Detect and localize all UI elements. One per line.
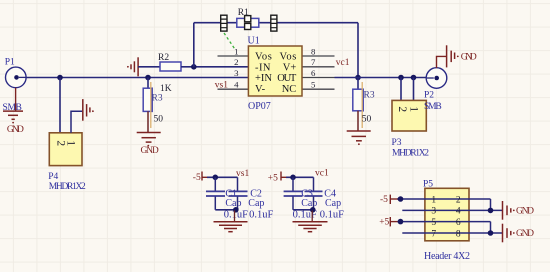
ground under R3 right [347,111,371,145]
svg-text:5: 5 [431,218,436,228]
wire down to P4 pin [59,78,61,133]
wire pin2 to pin4 [490,199,492,210]
ground above P2 [437,45,477,68]
svg-text:P4: P4 [48,172,58,182]
resistor R2 [158,53,181,71]
svg-text:-5: -5 [380,195,388,205]
wire ground to R2 [138,66,160,68]
wire U1 output to P2 [335,77,427,79]
svg-text:P5: P5 [423,180,433,190]
pin 4 [218,88,249,90]
svg-text:GND: GND [516,207,534,217]
power port -5 at caps [193,172,208,184]
connector P2 (SMB) [424,68,447,112]
ground right of P5 bottom [503,224,535,243]
tan artifact line [361,82,363,128]
jumper pad left of R1 [220,15,227,31]
ground (rotated) near P4 [83,99,94,121]
svg-text:4: 4 [234,80,239,90]
body [425,188,469,241]
junction dot C3 top [290,175,296,181]
header P4 MHDR1X2 [48,133,86,192]
pin 5 [302,88,335,90]
wire feedback right vertical [357,23,359,78]
svg-text:8: 8 [311,46,316,56]
row wires [397,198,491,200]
junction dot at R3 branch [145,75,151,81]
svg-text:R2: R2 [158,53,169,63]
svg-text:7: 7 [431,229,436,239]
jumper pad right of R1 [270,15,277,31]
pin 6 [302,77,335,79]
junction dot P3 pin2 [398,75,404,81]
svg-text:50: 50 [362,114,372,124]
op-amp U1 OP07 [218,36,335,112]
junction dot at P1 branch [57,75,63,81]
ground under P1 [3,88,24,136]
wire +5 to caps [286,176,314,178]
wire R2 to U1 pin2 [181,66,248,68]
junction dot at R2 output [191,64,197,70]
svg-text:-IN: -IN [255,62,271,73]
svg-text:+IN: +IN [255,73,272,84]
svg-text:GND: GND [141,146,159,156]
pad bottom of R1 [245,23,251,29]
wire -5 to caps [207,176,238,178]
wire cap bottoms [215,209,237,211]
svg-text:1: 1 [408,106,420,112]
svg-text:6: 6 [456,218,461,228]
svg-text:V-: V- [255,84,266,95]
header P3 MHDR1X2 [392,100,430,158]
svg-text:R3: R3 [364,90,375,100]
svg-text:2: 2 [234,57,238,67]
junction dots [488,208,494,214]
svg-text:OUT: OUT [277,73,297,84]
ground under R3 left [137,111,161,156]
resistor R1 [237,8,259,27]
svg-text:vc1: vc1 [336,58,350,68]
pin 7 [302,66,335,68]
svg-text:5: 5 [311,80,316,90]
svg-text:1: 1 [234,46,238,56]
wire P4 pin2 to ground [71,111,82,133]
wire feedback vertical [193,23,195,67]
svg-text:P2: P2 [424,91,434,101]
svg-text:Header 4X2: Header 4X2 [424,251,470,262]
svg-text:Vos: Vos [255,52,272,63]
svg-text:50: 50 [154,115,164,125]
pin 8 [302,55,335,57]
ground left of R2 [127,57,138,76]
power port -5 at P5 [380,195,403,205]
junction dot P3 pin1 [411,75,417,81]
body [248,46,302,96]
svg-text:-5: -5 [193,173,201,183]
svg-text:6: 6 [311,68,316,78]
svg-text:SMB: SMB [424,102,442,112]
svg-text:4: 4 [456,207,461,217]
capacitor C3 [284,177,318,220]
svg-text:MHDR1X2: MHDR1X2 [49,182,86,192]
svg-text:GND: GND [516,229,534,239]
svg-text:0.1uF: 0.1uF [249,210,273,221]
svg-text:Cap: Cap [248,198,264,209]
svg-text:GND: GND [461,53,477,63]
junction dot caps gnd [233,207,239,213]
junction dot caps gnd right [310,207,316,213]
svg-text:U1: U1 [248,36,260,47]
power port +5 at caps [268,172,287,184]
ground under C1 C2 [214,211,248,232]
wire P3 pin2 drop [400,78,402,101]
tan artifact line [150,82,152,128]
svg-text:OP07: OP07 [248,101,271,112]
resistor R3 left 1K [143,78,172,129]
svg-text:2: 2 [396,106,408,112]
wire feedback top [194,22,358,24]
svg-text:NC: NC [282,84,297,95]
junction dot feedback/output [355,75,361,81]
svg-text:1: 1 [65,140,77,146]
svg-text:GND: GND [7,125,24,135]
connector P1 (SMB) [3,58,27,114]
svg-text:R3: R3 [152,93,163,103]
capacitor C2 [229,177,274,220]
ground right of P5 top [503,201,535,220]
svg-text:7: 7 [311,57,316,67]
pin 1 [218,55,249,57]
wire P3 pin1 drop [413,78,415,101]
wire main net from P1 to U1 pin3 [26,77,248,79]
svg-text:P1: P1 [5,58,15,68]
ground under C3 C4 [293,211,328,232]
svg-text:Cap: Cap [225,198,241,209]
svg-text:Vos: Vos [280,52,297,63]
wire cap bottoms right [293,209,314,211]
svg-text:MHDR1X2: MHDR1X2 [392,149,429,159]
svg-text:+5: +5 [268,174,278,184]
capacitor C1 [206,177,248,220]
pad top of R1 [245,16,251,22]
svg-text:Cap: Cap [325,198,341,209]
header P5 4X2 [397,180,503,263]
green guide dashed line [224,33,236,50]
svg-text:3: 3 [234,68,239,78]
junction dot C1 top [213,175,219,181]
svg-text:+5: +5 [379,218,389,228]
svg-text:3: 3 [431,207,436,217]
svg-text:vs1: vs1 [215,80,228,90]
svg-text:Cap: Cap [301,198,317,209]
svg-text:P3: P3 [392,138,402,148]
svg-text:vc1: vc1 [315,169,329,179]
resistor R3 right 50 [353,78,375,129]
svg-text:0.1uF: 0.1uF [320,210,344,221]
svg-text:8: 8 [456,229,461,239]
svg-text:1: 1 [431,195,436,205]
power port +5 at P5 [379,217,403,228]
svg-text:V+: V+ [283,62,297,73]
capacitor C4 [305,177,345,220]
wire pin6 to pin8 [490,222,492,233]
svg-text:2: 2 [456,195,461,205]
